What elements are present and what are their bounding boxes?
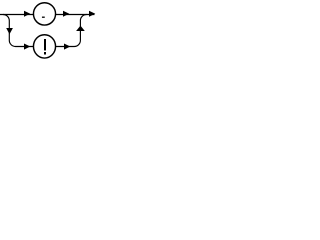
label: exclamation stem inside bottom circle [44,39,46,50]
node: circle terminal containing hyphen [33,3,55,25]
wire: top rail left segment [0,14,34,16]
wire: left skip branch (arc down from top rail, vertical, arc into bottom rail) [3,15,34,47]
label: exclamation dot inside bottom circle [44,52,46,55]
arrowhead: top-left pointing right [24,11,30,17]
wire: bottom rail exit rising back to top rail [55,15,87,47]
wire: top rail right segment [55,14,95,16]
label: hyphen glyph inside top circle [42,17,45,18]
arrowhead: bottom-middle pointing right (after bang circle) [64,44,70,50]
arrowhead: left vertical pointing down [6,28,13,34]
arrowhead: top-middle pointing right (after hyphen circle) [63,11,69,17]
arrowhead: top-right final pointing right [89,11,95,17]
arrowhead: bottom-left pointing right [24,44,30,50]
node: circle terminal containing exclamation mark [33,35,55,58]
arrowhead: right vertical pointing up [76,26,85,31]
